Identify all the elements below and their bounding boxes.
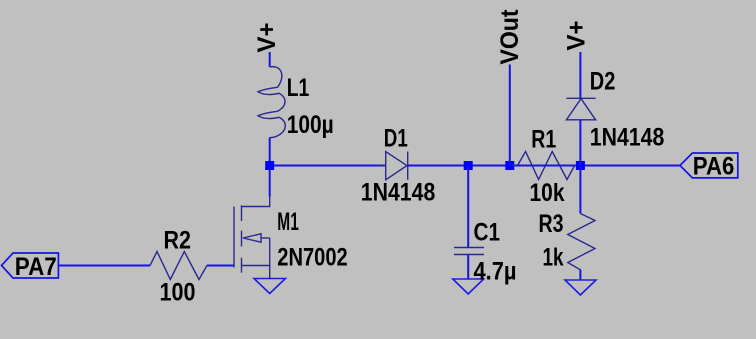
diode D2 [566, 98, 595, 120]
svg-text:R3: R3 [539, 210, 564, 238]
svg-text:D1: D1 [384, 124, 408, 152]
svg-text:R1: R1 [531, 126, 556, 154]
svg-text:V+: V+ [563, 21, 591, 51]
ground (C1) [453, 279, 484, 294]
svg-text:1N4148: 1N4148 [361, 178, 436, 206]
port flag PA7 [2, 253, 59, 278]
svg-text:R2: R2 [164, 227, 192, 255]
wire [467, 166, 469, 248]
svg-text:M1: M1 [277, 208, 299, 236]
port flag PA6 [680, 153, 738, 178]
svg-text:D2: D2 [590, 68, 616, 96]
resistor R2 [150, 252, 207, 280]
wire [509, 65, 511, 166]
wire [467, 255, 469, 280]
wire [207, 265, 234, 267]
node junction C1 tap [464, 161, 473, 170]
ground (M1 source) [254, 279, 285, 294]
node junction R1/D2/R3 [576, 161, 585, 170]
wire [270, 165, 386, 167]
wire [579, 120, 581, 166]
wire [58, 265, 150, 267]
svg-text:VOut: VOut [496, 9, 524, 65]
wire [408, 165, 680, 167]
resistor R1 [512, 152, 580, 180]
svg-text:2N7002: 2N7002 [277, 243, 347, 271]
svg-text:1k: 1k [543, 244, 564, 272]
wire [269, 138, 271, 197]
svg-text:100: 100 [160, 279, 196, 307]
wire [579, 270, 581, 281]
wire [579, 166, 581, 214]
resistor R3 [568, 214, 595, 270]
node junction VOut tap [505, 161, 514, 170]
svg-text:4.7µ: 4.7µ [474, 257, 517, 285]
diode D1 [378, 152, 418, 180]
svg-text:PA7: PA7 [15, 253, 57, 281]
ground (R3) [565, 280, 596, 295]
wire [579, 52, 581, 99]
wire [269, 52, 271, 67]
svg-text:1N4148: 1N4148 [590, 123, 665, 151]
svg-text:C1: C1 [474, 219, 501, 247]
svg-text:PA6: PA6 [693, 152, 735, 180]
svg-text:L1: L1 [287, 74, 310, 102]
inductor L1 [258, 67, 285, 138]
svg-text:10k: 10k [530, 179, 565, 207]
svg-text:V+: V+ [253, 23, 281, 53]
node junction drain [265, 161, 274, 170]
capacitor C1 [454, 248, 484, 255]
transistor M1 [234, 197, 270, 279]
svg-text:100µ: 100µ [287, 111, 334, 139]
